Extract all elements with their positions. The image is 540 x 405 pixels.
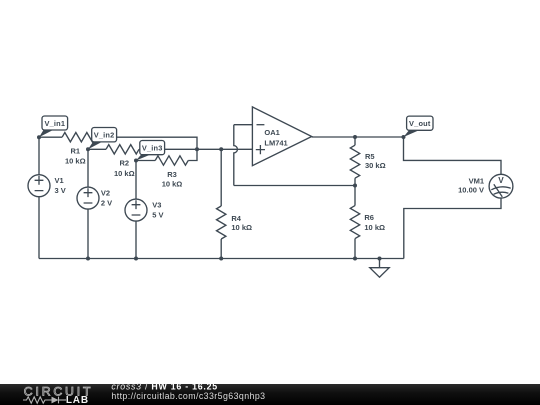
V3 plus minus signs	[132, 200, 141, 215]
wire R5 bottom lead	[354, 178, 356, 185]
voltmeter needle and arcs	[491, 184, 510, 197]
wire R6 top lead	[354, 186, 356, 206]
wire voltmeter bottom return	[404, 198, 501, 258]
svg-text:R1: R1	[71, 146, 81, 155]
wire op-amp minus input	[234, 124, 253, 126]
svg-text:10 kΩ: 10 kΩ	[364, 223, 385, 232]
node dot V_in3	[134, 159, 138, 163]
svg-text:30 kΩ: 30 kΩ	[365, 161, 386, 170]
wire R4 top lead	[220, 149, 222, 206]
wire feedback vertical with hop	[234, 125, 238, 186]
svg-text:LAB: LAB	[66, 395, 89, 405]
wire V1 bottom lead	[38, 197, 40, 259]
wire V1 top lead	[38, 137, 40, 175]
node dot V_in2	[86, 147, 90, 151]
wire R5 top lead	[354, 137, 356, 145]
wire V2 bottom lead	[87, 209, 89, 258]
wire V3 bottom lead	[135, 221, 137, 258]
svg-text:R2: R2	[120, 159, 130, 168]
node dot summing junction	[195, 147, 199, 151]
wire R6 bottom lead	[354, 239, 356, 259]
resistor R1	[62, 133, 95, 142]
svg-text:R6: R6	[364, 213, 374, 222]
svg-text:V1: V1	[55, 176, 64, 185]
resistor R6	[350, 206, 359, 239]
V2 plus minus signs	[84, 188, 93, 203]
node dot R6 bottom	[353, 257, 357, 261]
node dot R4 top	[219, 147, 223, 151]
voltage source V1 circle	[28, 175, 50, 197]
wire row B from R2 to op-amp plus input	[139, 148, 252, 150]
svg-text:10 kΩ: 10 kΩ	[65, 157, 86, 166]
svg-text:10 kΩ: 10 kΩ	[114, 169, 135, 178]
wire row C from V_in3 node to R3	[136, 160, 155, 162]
flag V_in3	[136, 141, 165, 161]
labels	[55, 128, 505, 232]
flag V_in2	[88, 128, 117, 150]
wire bottom ground rail	[39, 258, 404, 260]
node dot V2 bottom	[86, 257, 90, 261]
voltage source V3 circle	[125, 199, 147, 221]
ground stub	[379, 259, 381, 268]
resistor R2	[106, 145, 139, 154]
voltage source V2 circle	[77, 187, 99, 209]
svg-text:10 kΩ: 10 kΩ	[231, 223, 252, 232]
ground symbol	[370, 268, 389, 278]
svg-text:OA1: OA1	[264, 128, 279, 137]
op-amp plus marker	[256, 145, 265, 154]
svg-text:R4: R4	[231, 214, 241, 223]
node dot V_out	[402, 135, 406, 139]
V1 plus minus signs	[35, 125, 511, 215]
resistor R4	[217, 206, 226, 239]
svg-text:V: V	[498, 176, 504, 185]
svg-text:V_in1: V_in1	[44, 119, 65, 128]
flag V_out	[404, 116, 434, 137]
svg-text:V_out: V_out	[409, 119, 431, 128]
svg-text:VM1: VM1	[469, 177, 484, 186]
op-amp minus marker	[257, 124, 265, 126]
svg-text:http://circuitlab.com/c33r5g63: http://circuitlab.com/c33r5g63qnhp3	[111, 391, 265, 401]
resistor R5	[350, 145, 359, 178]
svg-text:5 V: 5 V	[152, 211, 163, 220]
svg-text:LM741: LM741	[264, 138, 287, 147]
svg-text:10 kΩ: 10 kΩ	[162, 180, 183, 189]
wire row A from V_in1 node to R1	[39, 136, 62, 138]
node dot R5 R6 junction	[353, 184, 357, 188]
svg-text:V_in2: V_in2	[94, 131, 115, 140]
wire row A from R1 to junction drop	[95, 137, 197, 149]
node dot V_in1	[37, 135, 406, 261]
node dot output R5	[353, 135, 357, 139]
flag V_in1	[39, 116, 68, 137]
svg-text:2 V: 2 V	[101, 199, 112, 208]
wire feedback horizontal to R5 R6 junction	[234, 185, 355, 187]
svg-text:V3: V3	[152, 201, 161, 210]
wire R4 bottom lead	[220, 239, 222, 259]
wire V2 top lead	[87, 149, 89, 187]
bottom bar	[0, 384, 540, 405]
svg-text:10.00 V: 10.00 V	[458, 185, 484, 194]
node dot ground	[378, 257, 382, 261]
wire op-amp output	[312, 136, 404, 138]
svg-text:V2: V2	[101, 189, 110, 198]
wire row B from V_in2 node to R2	[88, 148, 106, 150]
node dot R4 bottom	[219, 257, 223, 261]
wire V3 top lead	[135, 161, 137, 200]
op-amp U1 triangle	[252, 107, 311, 166]
wire row C from R3 up to junction	[188, 149, 197, 160]
resistor R3	[155, 156, 188, 165]
voltmeter VM1 circle	[489, 174, 513, 198]
node dot V3 bottom	[134, 257, 138, 261]
wire V_out drop to voltmeter	[404, 137, 502, 174]
svg-text:3 V: 3 V	[55, 186, 66, 195]
svg-text:R5: R5	[365, 152, 375, 161]
logo resistor diode mark	[23, 397, 66, 404]
svg-text:R3: R3	[167, 170, 177, 179]
svg-text:V_in3: V_in3	[142, 144, 163, 153]
